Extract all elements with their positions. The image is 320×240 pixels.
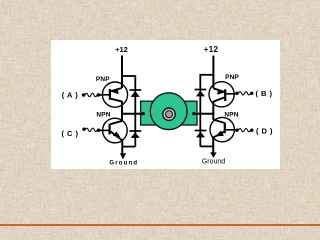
svg-text:( A ): ( A ) (62, 90, 79, 99)
transistor Q4 NPN lower-right (210, 117, 237, 141)
svg-text:+12: +12 (204, 45, 219, 54)
wire: right motor node (194, 113, 215, 115)
svg-text:PNP: PNP (96, 76, 110, 83)
wire: left rail from +12 (121, 56, 123, 89)
motor M1 shaft (163, 108, 175, 120)
wire: right rail from +12 (212, 56, 214, 89)
svg-text:NPN: NPN (224, 111, 238, 118)
node B input: dot, resistor squiggle, dot (235, 92, 253, 95)
ground left (120, 153, 126, 159)
transistor Q2 NPN lower-left (99, 118, 127, 143)
diode D4 (lower right flyback) (195, 131, 207, 138)
wire: right ground stem (212, 137, 214, 152)
wire: left diode branch (134, 75, 136, 146)
wire: right diode branch (199, 74, 201, 146)
svg-text:Ground: Ground (202, 158, 225, 165)
transistor Q1 PNP upper-left (99, 82, 128, 107)
node D input: dot, resistor squiggle, dot (235, 129, 253, 132)
wire: left rail between transistors (121, 101, 123, 121)
wire: left bottom connect (122, 146, 135, 148)
wire: right bottom connect (200, 145, 214, 147)
diode D3 (upper right flyback) (195, 90, 207, 97)
svg-text:( C ): ( C ) (61, 129, 78, 138)
wire: right rail between transistors (212, 101, 214, 120)
junction dot right motor terminal (192, 112, 195, 115)
wire: left motor node (121, 113, 143, 115)
junction dot left motor terminal (142, 112, 145, 115)
diode D2 (lower left flyback) (129, 131, 141, 138)
node A input: dot, resistor squiggle, dot (82, 93, 103, 96)
svg-text:( D ): ( D ) (256, 126, 273, 135)
node C input: dot, resistor squiggle, dot (82, 128, 103, 132)
motor M1 body (141, 93, 197, 130)
wire: right top connect to diode branch (200, 74, 214, 76)
svg-text:( B ): ( B ) (255, 89, 272, 98)
svg-text:PNP: PNP (225, 74, 239, 81)
ground right (210, 152, 216, 157)
transistor Q3 PNP upper-right (209, 82, 237, 107)
svg-text:+12: +12 (115, 45, 128, 54)
wire: left ground stem (121, 140, 123, 153)
diode D1 (upper left flyback) (129, 90, 141, 97)
svg-text:NPN: NPN (96, 111, 110, 118)
wire: left top connect to diode branch (121, 75, 135, 77)
svg-text:Ground: Ground (109, 160, 138, 166)
